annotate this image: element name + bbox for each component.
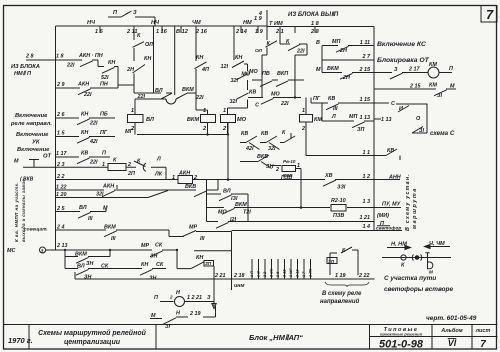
row М Н 2 19 — [150, 306, 216, 325]
svg-text:МО: МО — [218, 210, 227, 216]
svg-text:КВ: КВ — [81, 151, 88, 157]
svg-text:1 12: 1 12 — [283, 269, 287, 277]
svg-text:ПВ: ПВ — [262, 71, 270, 77]
svg-text:2: 2 — [193, 175, 197, 181]
svg-text:НМⅡ П: НМⅡ П — [14, 70, 32, 77]
svg-text:Н, НМ: Н, НМ — [391, 242, 407, 248]
svg-text:КВ: КВ — [387, 148, 394, 154]
svg-text:М: М — [103, 206, 108, 212]
svg-text:1 8: 1 8 — [311, 21, 320, 27]
svg-text:ЗЗІ: ЗЗІ — [337, 185, 346, 191]
junction dots row 2 2 — [227, 123, 229, 180]
wire top bus НЧ-ЧМ — [56, 25, 268, 27]
svg-text:П: П — [449, 66, 453, 72]
svg-text:1: 1 — [297, 163, 300, 169]
svg-text:2 2: 2 2 — [263, 271, 267, 278]
svg-text:1: 1 — [102, 162, 105, 168]
svg-text:ЗН: ЗН — [266, 164, 273, 170]
contact КВ to route scheme — [374, 149, 400, 160]
column 2 14 wire — [228, 26, 249, 115]
svg-text:КН: КН — [196, 55, 203, 61]
svg-text:ЗН: ЗН — [149, 276, 156, 282]
row В МП 1 11 — [322, 46, 374, 53]
svg-text:2 7: 2 7 — [362, 54, 371, 60]
svg-text:С: С — [391, 101, 395, 107]
svg-text:Т ИМ: Т ИМ — [269, 21, 283, 27]
svg-text:1 2 21: 1 2 21 — [187, 295, 202, 301]
svg-text:1970 г.: 1970 г. — [8, 336, 33, 345]
switch К box — [330, 247, 358, 275]
svg-text:ЧМ: ЧМ — [192, 20, 201, 26]
svg-text:32І: 32І — [230, 99, 238, 105]
svg-text:АКН · ПН: АКН · ПН — [78, 53, 103, 59]
branch ВЛ СК ЗН — [65, 257, 166, 276]
svg-text:СК: СК — [155, 243, 163, 249]
svg-text:ВЛ: ВЛ — [155, 88, 163, 94]
svg-text:1 17: 1 17 — [56, 151, 67, 157]
svg-text:2Н: 2Н — [342, 75, 350, 81]
svg-text:НМ: НМ — [243, 20, 252, 26]
relay coil КМ — [300, 115, 313, 123]
svg-text:СК: СК — [156, 262, 164, 268]
row 2 4 ВКМ — [56, 230, 232, 237]
svg-text:С: С — [255, 103, 259, 109]
svg-text:1 7: 1 7 — [302, 271, 306, 277]
svg-text:2 СК: 2 СК — [270, 268, 274, 278]
svg-text:1 4: 1 4 — [363, 224, 371, 230]
wire МС row — [46, 250, 205, 269]
wire МГ common — [137, 134, 229, 136]
svg-text:Н: Н — [176, 311, 180, 317]
svg-text:7: 7 — [486, 7, 494, 22]
row 2 5 ВЛ М — [56, 209, 107, 219]
svg-text:инм: инм — [234, 283, 245, 289]
svg-text:2 15: 2 15 — [409, 84, 421, 90]
svg-text:1: 1 — [302, 108, 305, 114]
svg-text:ВЛ: ВЛ — [223, 189, 231, 195]
svg-text:реле направл.: реле направл. — [10, 121, 52, 127]
svg-text:КМ: КМ — [429, 62, 437, 68]
svg-text:Ч, ЧМ: Ч, ЧМ — [429, 241, 445, 247]
svg-text:УК: УК — [32, 140, 40, 146]
svg-text:1 ЛК: 1 ЛК — [309, 268, 313, 277]
svg-text:ЗН: ЗН — [150, 254, 157, 260]
row М ВКМ 2 17 — [322, 60, 374, 79]
svg-text:МО: МО — [271, 92, 280, 98]
svg-text:ПЗВ: ПЗВ — [283, 173, 293, 178]
svg-text:АКН: АКН — [77, 82, 89, 88]
svg-text:1 МГ: 1 МГ — [289, 268, 293, 277]
svg-text:Л: Л — [156, 157, 161, 163]
svg-text:совещат.: совещат. — [24, 228, 48, 233]
svg-text:ВКМ: ВКМ — [182, 87, 194, 93]
terminal Н circle row — [160, 301, 174, 303]
svg-text:(МИ): (МИ) — [377, 213, 389, 219]
svg-text:1 22: 1 22 — [56, 185, 67, 191]
svg-text:ОЛ: ОЛ — [255, 48, 263, 54]
svg-text:2 22: 2 22 — [358, 273, 370, 279]
svg-text:1 11: 1 11 — [360, 40, 370, 46]
svg-text:КВ: КВ — [261, 131, 268, 137]
svg-text:ВКМ: ВКМ — [187, 117, 199, 123]
svg-text:направлений: направлений — [320, 298, 360, 305]
svg-text:Т2І: Т2І — [243, 210, 251, 216]
svg-text:КН: КН — [81, 112, 88, 118]
svg-text:42І: 42І — [245, 146, 254, 152]
svg-text:1 9: 1 9 — [255, 29, 264, 35]
resistor К — [108, 164, 126, 171]
svg-text:Рв-10: Рв-10 — [283, 159, 296, 164]
svg-text:1: 1 — [131, 108, 134, 114]
svg-text:2 5: 2 5 — [276, 271, 280, 278]
svg-text:ІІІ: ІІІ — [111, 236, 116, 242]
svg-text:2 8: 2 8 — [310, 29, 320, 35]
svg-text:32І: 32І — [268, 146, 276, 152]
svg-text:ВКМ: ВКМ — [327, 66, 339, 72]
row 2 15 КМ М — [374, 89, 456, 96]
svg-text:2 9: 2 9 — [56, 82, 65, 88]
row 1 5 КН ПГ — [56, 137, 116, 144]
svg-text:ВКМ: ВКМ — [235, 202, 247, 208]
svg-text:22І: 22І — [137, 94, 146, 100]
svg-text:1: 1 — [203, 108, 206, 114]
svg-text:1 13: 1 13 — [360, 115, 371, 121]
svg-text:ВКМ: ВКМ — [75, 252, 87, 258]
row Л МП 1 13 — [322, 103, 374, 128]
resistor ВКВ — [282, 166, 296, 172]
contact З external — [374, 73, 405, 80]
svg-text:32І: 32І — [231, 78, 239, 84]
svg-text:КН: КН — [196, 255, 203, 261]
svg-text:22І: 22І — [89, 121, 98, 127]
svg-text:З: З — [394, 67, 398, 73]
svg-text:Схемы маршрутной релейной: Схемы маршрутной релейной — [38, 329, 146, 337]
svg-text:черт. 601-05-49: черт. 601-05-49 — [426, 315, 477, 322]
svg-text:2 15: 2 15 — [359, 67, 371, 73]
svg-text:7: 7 — [480, 339, 486, 350]
svg-text:К: К — [401, 263, 405, 269]
svg-text:В схему устан.: В схему устан. — [405, 173, 411, 231]
svg-text:2 8: 2 8 — [25, 54, 34, 60]
svg-text:2 3: 2 3 — [56, 162, 65, 168]
svg-text:2 21: 2 21 — [214, 273, 226, 279]
svg-text:КМ: КМ — [314, 117, 322, 123]
svg-text:42І: 42І — [89, 139, 98, 145]
svg-text:ПЗВ: ПЗВ — [333, 213, 344, 219]
svg-text:1 15: 1 15 — [360, 97, 371, 103]
svg-text:2 2: 2 2 — [56, 174, 65, 180]
svg-text:выхода и сигналы завис.: выхода и сигналы завис. — [21, 177, 26, 242]
svg-text:З: З — [41, 249, 44, 254]
svg-text:В схему реле: В схему реле — [322, 291, 362, 297]
svg-text:ЗП: ЗП — [328, 259, 335, 264]
svg-text:ЗП: ЗП — [205, 261, 212, 266]
wire МО-С row — [248, 98, 301, 105]
svg-text:22І: 22І — [296, 49, 305, 55]
svg-text:1 6: 1 6 — [95, 29, 104, 35]
svg-text:М: М — [14, 159, 19, 165]
svg-text:2 11: 2 11 — [126, 29, 137, 35]
terminal МС — [40, 247, 46, 253]
svg-text:1 8: 1 8 — [56, 54, 64, 60]
svg-text:1 В: 1 В — [257, 271, 261, 277]
row 1 17 КВ П — [56, 157, 111, 164]
svg-text:1: 1 — [223, 108, 226, 114]
svg-text:ВКМ: ВКМ — [104, 225, 116, 231]
relay coil ВЛ — [128, 115, 144, 123]
wire left bus — [55, 26, 57, 250]
lamp КМ — [428, 67, 439, 78]
svg-text:2 14: 2 14 — [235, 29, 248, 35]
wire right rail — [373, 27, 375, 231]
contact П-З top — [108, 11, 155, 26]
svg-text:ЛК: ЛК — [154, 172, 163, 178]
svg-text:М: М — [316, 67, 321, 73]
svg-text:К вв. НМПП на участк.: К вв. НМПП на участк. — [14, 182, 19, 242]
svg-text:В: В — [316, 40, 320, 46]
svg-text:ВЛ: ВЛ — [146, 117, 154, 123]
svg-text:КН: КН — [144, 56, 151, 62]
svg-text:АКН: АКН — [178, 171, 190, 177]
svg-text:КВ: КВ — [328, 96, 335, 102]
svg-text:Блок „НМⅡАП“: Блок „НМⅡАП“ — [249, 333, 303, 342]
svg-text:КВ: КВ — [241, 131, 248, 137]
svg-text:КН: КН — [108, 60, 115, 66]
resistor R2-10 ПЗВ — [331, 205, 346, 212]
svg-text:І2І: І2І — [230, 217, 236, 223]
wire ИНМ drop — [231, 278, 233, 291]
contact МР ІІІ mid — [231, 232, 233, 251]
svg-text:ІІІ: ІІІ — [200, 236, 205, 242]
relay coil ВКМ — [201, 115, 216, 123]
svg-text:КМ: КМ — [429, 83, 437, 89]
row 2 7 loop — [322, 46, 374, 61]
svg-text:М: М — [450, 84, 455, 90]
contact ПВ ВКП — [252, 80, 304, 87]
loop схема С — [374, 103, 427, 133]
svg-text:2: 2 — [169, 295, 173, 300]
svg-text:ПГ: ПГ — [313, 96, 321, 102]
contact ХВ ЗЗІ — [323, 180, 336, 186]
svg-text:1 20: 1 20 — [56, 192, 67, 198]
svg-text:ВКВ: ВКВ — [185, 184, 196, 190]
svg-text:2 13: 2 13 — [56, 243, 68, 249]
svg-text:2 16: 2 16 — [195, 29, 208, 35]
svg-text:1 5: 1 5 — [57, 131, 65, 137]
branch ВКМ ЗН — [65, 250, 110, 263]
svg-text:2 19: 2 19 — [189, 311, 201, 317]
svg-text:П: П — [102, 151, 106, 157]
row ВКВ ЗН resistor — [240, 155, 281, 169]
svg-text:501-0-98: 501-0-98 — [379, 339, 424, 351]
relay ЗП small box — [204, 261, 214, 267]
svg-text:2 1: 2 1 — [275, 29, 284, 35]
svg-text:СК: СК — [101, 264, 109, 270]
wire from block ВЫ2П — [267, 10, 374, 27]
svg-text:маршрута: маршрута — [412, 187, 418, 229]
svg-text:22І: 22І — [89, 160, 98, 166]
svg-text:светофор: светофор — [376, 225, 401, 232]
svg-text:КН: КН — [81, 130, 88, 136]
row КВ 42І КВ 32І К — [240, 133, 295, 150]
node bus left corner — [55, 26, 57, 60]
svg-text:2: 2 — [275, 167, 279, 173]
svg-text:ВКВ: ВКВ — [257, 154, 268, 160]
svg-text:АКН: АКН — [102, 184, 114, 190]
svg-text:1 1: 1 1 — [363, 150, 371, 156]
svg-text:2: 2 — [127, 162, 131, 168]
svg-text:2Н: 2Н — [126, 67, 134, 73]
svg-text:ПН: ПН — [100, 82, 108, 88]
svg-text:52І: 52І — [101, 75, 109, 81]
svg-text:ЗІ: ЗІ — [437, 93, 442, 99]
svg-text:Н: Н — [176, 290, 180, 296]
svg-text:ІІІ: ІІІ — [88, 216, 93, 222]
svg-text:VI: VI — [448, 338, 457, 348]
svg-text:1 21: 1 21 — [360, 215, 371, 221]
svg-text:ПУ, МУ: ПУ, МУ — [382, 202, 401, 208]
svg-text:2: 2 — [301, 126, 305, 132]
svg-text:1 13: 1 13 — [381, 117, 392, 123]
svg-text:R2-10: R2-10 — [331, 198, 346, 204]
svg-text:З: З — [207, 295, 211, 301]
svg-text:2Н: 2Н — [339, 48, 347, 54]
svg-text:централизации: централизации — [64, 339, 121, 346]
svg-text:Альбом: Альбом — [440, 327, 463, 334]
wire bottom long — [75, 272, 375, 279]
button М and row 2 3 — [23, 160, 166, 180]
svg-text:В 12: В 12 — [176, 29, 189, 35]
row 2 6 КН ПБ — [56, 118, 116, 125]
svg-text:И: И — [399, 106, 403, 112]
row 1 20 32І — [56, 191, 169, 198]
svg-text:МО: МО — [249, 69, 258, 75]
svg-text:МО: МО — [241, 72, 250, 78]
svg-text:2 18: 2 18 — [233, 273, 245, 279]
svg-text:Л: Л — [331, 114, 336, 120]
contact К (left) mid — [262, 27, 277, 98]
svg-text:Включение: Включение — [17, 147, 50, 153]
svg-text:НЧ: НЧ — [87, 20, 96, 26]
ladder ВЛ ВКМ МО — [207, 180, 251, 229]
svg-text:12І: 12І — [221, 64, 229, 70]
row 1 22 АКН ВКВ — [56, 180, 219, 197]
svg-text:З: З — [133, 10, 137, 16]
svg-text:ЗІ: ЗІ — [419, 128, 424, 134]
svg-text:2 6: 2 6 — [56, 112, 65, 118]
svg-text:ЗІ: ЗІ — [165, 324, 170, 330]
svg-text:22І: 22І — [195, 95, 204, 101]
svg-text:АНН: АНН — [388, 175, 401, 181]
svg-text:Блокировка ОТ: Блокировка ОТ — [377, 57, 430, 64]
arrow Н НМ — [387, 246, 411, 250]
svg-text:схема С: схема С — [430, 130, 455, 137]
relay coil МО — [221, 115, 236, 123]
column 1 16 wire — [135, 26, 166, 99]
svg-text:1 2: 1 2 — [363, 174, 371, 180]
svg-text:2 5: 2 5 — [56, 206, 65, 212]
bottom pin ticks — [252, 259, 311, 279]
svg-text:ХВ: ХВ — [324, 173, 333, 179]
svg-text:22І: 22І — [83, 92, 92, 98]
svg-text:Включение КС: Включение КС — [377, 41, 426, 48]
svg-text:22І: 22І — [280, 101, 289, 107]
svg-text:2П: 2П — [127, 171, 135, 177]
svg-text:ПГ: ПГ — [100, 130, 108, 136]
svg-text:Включение: Включение — [16, 132, 49, 138]
svg-text:ИЗ БЛОКА: ИЗ БЛОКА — [11, 64, 40, 70]
svg-text:ЗП: ЗП — [357, 127, 364, 133]
svg-text:МО: МО — [237, 117, 247, 123]
sheet number box — [481, 6, 497, 23]
svg-text:2 12: 2 12 — [296, 269, 300, 278]
box КН ЗП — [194, 251, 232, 278]
svg-text:МП: МП — [349, 114, 357, 120]
svg-text:ВКП: ВКП — [277, 71, 288, 77]
svg-text:ЗН: ЗН — [86, 261, 93, 267]
svg-text:ВЛ: ВЛ — [77, 264, 85, 270]
svg-text:МГ: МГ — [125, 129, 134, 135]
svg-text:22І: 22І — [66, 63, 75, 69]
title block lines — [4, 325, 498, 350]
svg-text:1: 1 — [172, 175, 175, 181]
svg-text:1 16: 1 16 — [156, 29, 168, 35]
svg-text:ОТ: ОТ — [43, 154, 52, 160]
svg-text:ВЛ: ВЛ — [79, 205, 87, 211]
row 2 9 АКН ПН — [56, 85, 135, 95]
row 1 21 — [248, 221, 374, 223]
svg-text:П: П — [154, 295, 158, 301]
svg-text:32І: 32І — [96, 192, 104, 198]
column НЧ wire 1 — [133, 26, 147, 115]
svg-text:ПБ: ПБ — [100, 112, 108, 118]
svg-text:Включение: Включение — [15, 113, 48, 119]
row 1 4 — [232, 230, 375, 232]
contact К 22І mid — [280, 26, 307, 98]
svg-text:ИЗ БЛОКА ВЫⅡП: ИЗ БЛОКА ВЫⅡП — [288, 11, 339, 18]
svg-text:МС: МС — [7, 248, 15, 254]
svg-text:КВ: КВ — [249, 90, 256, 96]
svg-text:лист: лист — [475, 328, 491, 334]
svg-text:МР: МР — [141, 243, 149, 249]
svg-text:1 19: 1 19 — [335, 273, 346, 279]
svg-text:2 4: 2 4 — [56, 225, 65, 231]
svg-text:ЗН: ЗН — [84, 275, 91, 281]
relay ЗП label box — [327, 258, 337, 264]
svg-text:НЧ: НЧ — [151, 20, 160, 26]
pin ticks under top bus — [100, 26, 315, 33]
svg-text:МР: МР — [189, 225, 197, 231]
svg-text:М: М — [429, 270, 433, 275]
row ПГ КВ 1 15 — [311, 98, 374, 110]
svg-text:2 17: 2 17 — [408, 67, 420, 73]
svg-text:4П: 4П — [201, 67, 209, 73]
svg-text:ІІІ: ІІІ — [333, 106, 338, 112]
relay coil АКН — [178, 176, 193, 184]
svg-text:проектные решения: проектные решения — [380, 332, 423, 337]
svg-text:С участка пути: С участка пути — [384, 275, 436, 282]
row 2 8 АКН ПН — [26, 60, 118, 85]
column 2 16 wire — [195, 26, 208, 115]
svg-text:КН: КН — [141, 262, 148, 268]
svg-text:1 П: 1 П — [250, 271, 254, 277]
svg-text:М: М — [151, 313, 156, 319]
row ПЗВ R2-10 1 3 — [250, 180, 402, 231]
column В 12 wire — [161, 26, 196, 104]
svg-text:МП: МП — [332, 39, 340, 45]
arrow Ч ЧМ — [425, 245, 451, 249]
svg-text:ОЛ: ОЛ — [145, 42, 153, 48]
